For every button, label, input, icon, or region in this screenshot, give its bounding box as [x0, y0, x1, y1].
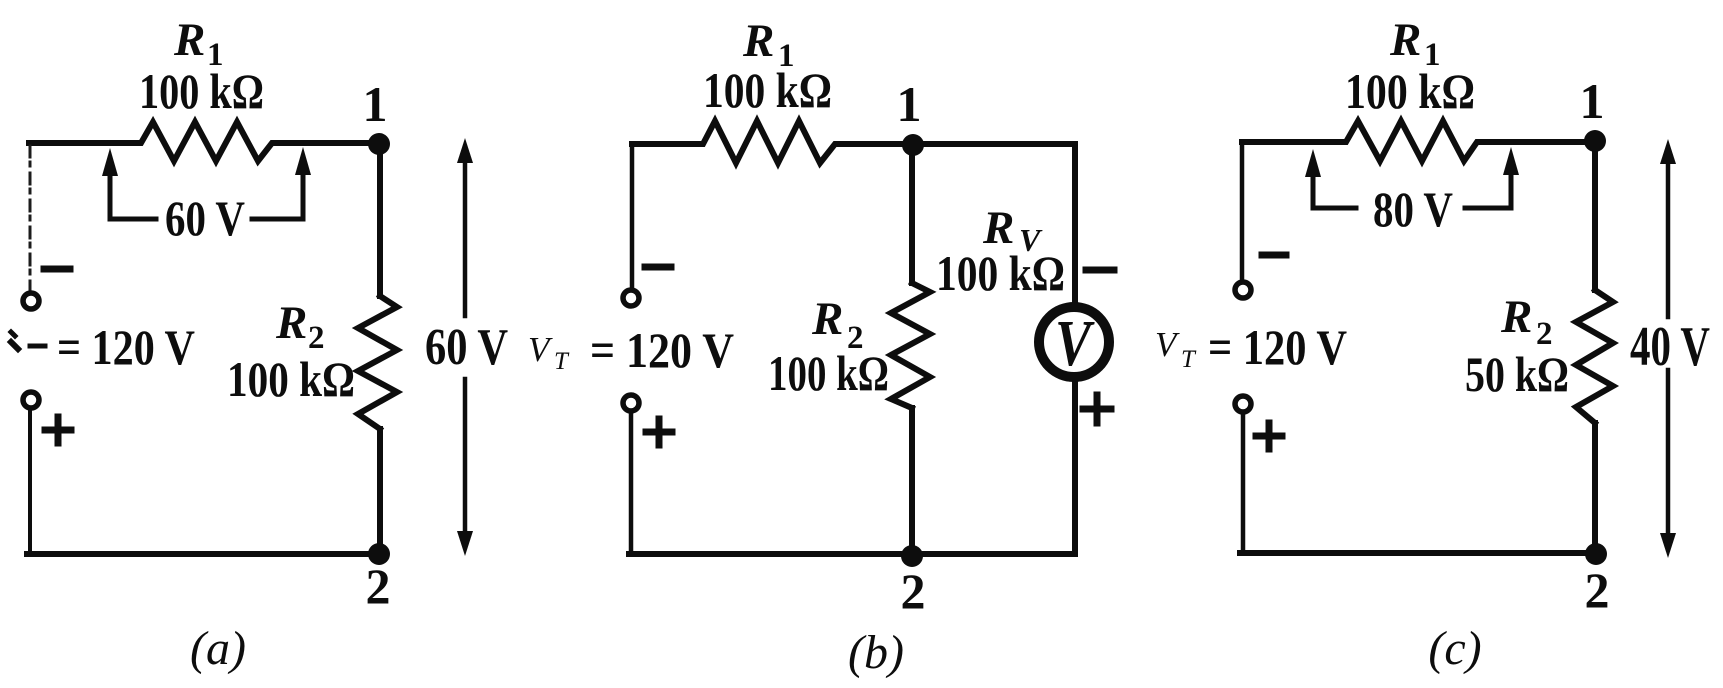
svg-text:R: R	[173, 14, 205, 66]
svg-text:T: T	[554, 348, 570, 375]
svg-text:100 kΩ: 100 kΩ	[227, 351, 355, 407]
svg-text:80 V: 80 V	[1373, 181, 1453, 237]
svg-text:(a): (a)	[190, 622, 246, 675]
svg-text:R: R	[742, 15, 774, 67]
svg-text:1: 1	[363, 76, 388, 132]
svg-text:R: R	[1389, 14, 1421, 66]
svg-text:R: R	[275, 297, 307, 349]
svg-text:60 V: 60 V	[165, 190, 245, 246]
svg-text:100 kΩ: 100 kΩ	[768, 345, 889, 401]
svg-text:T: T	[1181, 346, 1197, 373]
svg-text:100 kΩ: 100 kΩ	[936, 245, 1065, 301]
svg-text:1: 1	[1580, 73, 1605, 129]
svg-text:2: 2	[366, 558, 391, 614]
svg-text:= 120 V: = 120 V	[57, 319, 195, 375]
svg-text:2: 2	[1585, 562, 1610, 618]
svg-text:1: 1	[897, 76, 922, 132]
svg-text:60 V: 60 V	[425, 319, 508, 376]
svg-text:100 kΩ: 100 kΩ	[1345, 63, 1475, 119]
svg-text:100 kΩ: 100 kΩ	[139, 63, 264, 119]
svg-text:R: R	[1500, 291, 1532, 343]
svg-text:2: 2	[901, 563, 926, 619]
svg-text:= 120 V: = 120 V	[1208, 319, 1347, 375]
svg-text:(b): (b)	[848, 626, 904, 679]
svg-text:100 kΩ: 100 kΩ	[703, 62, 832, 118]
svg-text:(c): (c)	[1428, 622, 1481, 675]
svg-text:V: V	[1155, 325, 1180, 364]
svg-text:V: V	[1055, 307, 1095, 380]
svg-text:V: V	[528, 330, 553, 369]
svg-text:40 V: 40 V	[1630, 316, 1710, 378]
svg-text:= 120 V: = 120 V	[590, 322, 734, 378]
svg-text:R: R	[811, 293, 843, 345]
svg-text:50 kΩ: 50 kΩ	[1465, 346, 1569, 402]
